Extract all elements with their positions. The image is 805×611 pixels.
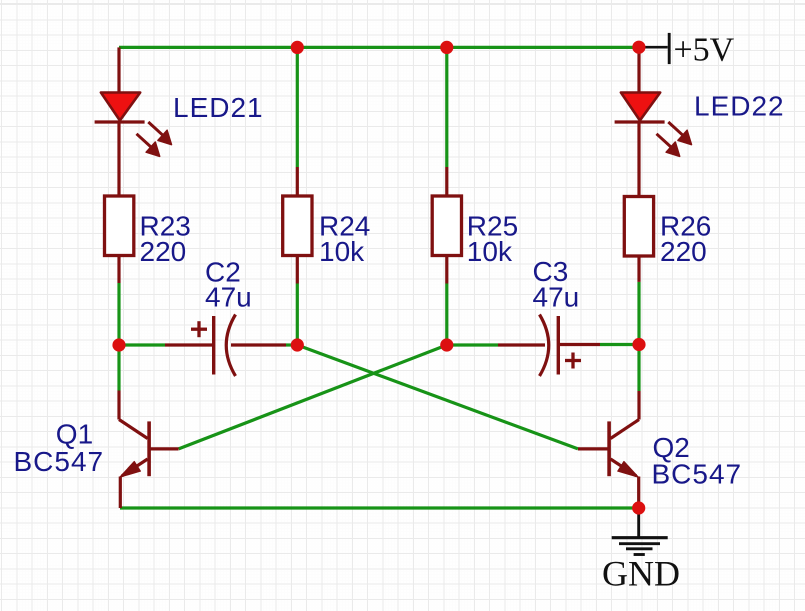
LED LED22 light arrow 1 xyxy=(668,122,691,145)
wire node A to C2 left pin xyxy=(119,343,165,346)
resistor R23 top pin xyxy=(117,195,120,198)
junction node top rail / +5V xyxy=(632,41,645,54)
transistor Q1 emitter diagonal with arrow xyxy=(120,459,148,477)
label R23 value 220 xyxy=(140,211,191,267)
power flag bar +5V xyxy=(668,33,671,64)
wire R26 bottom to node D xyxy=(637,282,640,345)
capacitor C3 plus sign xyxy=(565,353,581,369)
transistor Q2 collector diagonal xyxy=(611,420,640,439)
wire bottom emitter/ground rail xyxy=(120,506,639,509)
resistor R25 bottom pin xyxy=(445,256,448,284)
wire cross-couple node B to Q2 base xyxy=(297,345,578,449)
junction node GND (emitter rail / ground) xyxy=(632,501,645,514)
capacitor C3 negative curved plate xyxy=(540,315,549,377)
junction node B (R24/C2/Q2 base wire) xyxy=(291,338,304,351)
resistor R24 bottom pin xyxy=(296,256,299,284)
resistor R25 top pin xyxy=(445,167,448,196)
resistor R25 body xyxy=(432,196,461,256)
transistor Q1 collector diagonal xyxy=(119,420,148,439)
svg-text:10k: 10k xyxy=(467,236,513,267)
capacitor C2 negative curved plate xyxy=(226,315,235,377)
wire node A down to Q1 collector xyxy=(117,345,120,391)
LED LED21 light arrow 1 xyxy=(148,122,171,145)
svg-text:47u: 47u xyxy=(205,282,252,313)
ground stem xyxy=(637,508,640,538)
LED LED21 anode pin xyxy=(117,47,120,93)
svg-text:LED21: LED21 xyxy=(173,92,264,123)
resistor R24 top pin xyxy=(296,167,299,196)
capacitor C3 right pin xyxy=(560,343,600,346)
LED LED21 cathode pin xyxy=(117,122,120,197)
label LED22 xyxy=(694,91,785,122)
label Q1 BC547 xyxy=(14,419,105,478)
svg-text:47u: 47u xyxy=(533,282,580,313)
svg-text:220: 220 xyxy=(660,236,707,267)
wire node D down to Q2 collector xyxy=(637,345,640,392)
transistor Q2 emitter pin xyxy=(637,477,640,509)
ground bar 1 xyxy=(612,536,668,539)
svg-text:BC547: BC547 xyxy=(14,446,105,477)
svg-text:BC547: BC547 xyxy=(652,458,743,489)
resistor R26 bottom pin xyxy=(637,256,640,282)
label R25 value 10k xyxy=(467,211,518,267)
wire C3 right pin to node D xyxy=(600,343,639,346)
junction node top rail / R24 xyxy=(291,41,304,54)
ground bar 3 xyxy=(626,547,653,550)
transistor Q2 emitter diagonal with arrow xyxy=(611,459,639,477)
LED LED21 cathode bar xyxy=(95,120,145,123)
label C3 value 47u xyxy=(533,256,580,313)
junction node C (R25/C3/Q1 base wire) xyxy=(440,338,453,351)
label GND xyxy=(602,553,680,593)
svg-text:Q1: Q1 xyxy=(56,419,93,450)
transistor Q1 collector pin xyxy=(117,391,120,420)
resistor R23 body xyxy=(105,196,134,256)
LED LED22 triangle xyxy=(621,93,660,121)
LED LED22 light arrow 2 xyxy=(657,134,680,157)
wire R25 bottom to node C xyxy=(445,284,448,346)
wire node C to C3 left pin xyxy=(447,343,498,346)
capacitor C2 right pin xyxy=(231,343,286,346)
label Q2 BC547 xyxy=(652,432,743,489)
ground bar 2 xyxy=(619,542,660,545)
label R24 value 10k xyxy=(319,211,370,267)
transistor Q2 base bar xyxy=(607,421,611,476)
transistor Q1 base bar xyxy=(147,421,151,476)
svg-text:+5V: +5V xyxy=(674,32,735,69)
wire cross-couple node C to Q1 base xyxy=(179,345,447,449)
capacitor C2 positive plate xyxy=(212,316,215,375)
resistor R26 body xyxy=(624,197,653,257)
label C2 value 47u xyxy=(205,257,252,313)
capacitor C2 left pin xyxy=(165,343,212,346)
LED LED22 cathode pin xyxy=(637,122,640,197)
wire R25 branch top (node to resistor) xyxy=(445,47,448,167)
wire R23 bottom to node A xyxy=(117,283,120,345)
wire R24 bottom to node B xyxy=(296,284,299,346)
transistor Q2 base pin xyxy=(578,447,609,450)
transistor Q2 collector pin xyxy=(637,391,640,420)
capacitor C3 positive plate xyxy=(557,316,560,375)
LED LED22 anode pin xyxy=(637,47,640,93)
wire R24 branch top (node to resistor) xyxy=(296,47,299,167)
transistor Q1 base pin xyxy=(149,447,179,450)
transistor Q1 emitter pin xyxy=(119,477,122,509)
svg-text:220: 220 xyxy=(140,236,187,267)
label LED21 xyxy=(173,92,264,123)
LED LED22 cathode bar xyxy=(615,120,665,123)
capacitor C3 left pin xyxy=(498,343,545,346)
ground bar 4 xyxy=(634,553,645,556)
svg-text:10k: 10k xyxy=(319,236,365,267)
resistor R24 body xyxy=(283,196,312,256)
label R26 value 220 xyxy=(660,211,711,267)
svg-text:GND: GND xyxy=(602,553,680,593)
LED LED21 light arrow 2 xyxy=(137,134,160,157)
label +5V xyxy=(674,32,735,69)
capacitor C2 plus sign xyxy=(191,321,207,337)
junction node D (R26/C3/Q2 collector) xyxy=(632,338,645,351)
svg-text:LED22: LED22 xyxy=(694,91,785,122)
junction node top rail / R25 xyxy=(440,41,453,54)
power flag wire to +5V xyxy=(639,46,668,49)
resistor R23 bottom pin xyxy=(117,256,120,284)
wire top +5V rail xyxy=(119,46,638,49)
wire C2 right pin to node B xyxy=(286,343,297,346)
LED LED21 triangle xyxy=(101,93,140,121)
junction node A (R23/C2/Q1 collector) xyxy=(112,338,125,351)
